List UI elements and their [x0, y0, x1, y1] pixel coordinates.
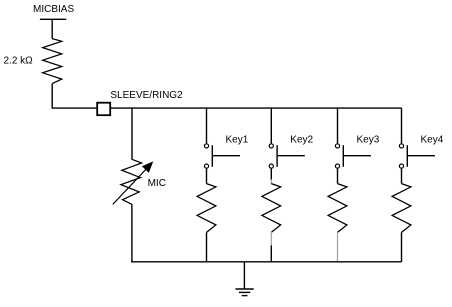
switch Key2 [269, 135, 313, 169]
wire [270, 168, 272, 179]
wire [52, 84, 97, 109]
resistor under Key4 [392, 184, 411, 233]
wire [206, 232, 208, 261]
wire MIC branch [131, 108, 133, 159]
svg-text:MIC: MIC [148, 178, 166, 189]
resistor under Key2 [262, 184, 281, 233]
wire [337, 232, 339, 261]
wire [401, 232, 403, 261]
svg-text:2.2 kΩ: 2.2 kΩ [4, 55, 34, 66]
resistor 2.2 kOhm [4, 39, 62, 84]
svg-text:Key4: Key4 [421, 135, 444, 146]
wire Key3 drop [337, 108, 339, 144]
wire [401, 168, 403, 183]
resistor under Key1 [197, 184, 216, 233]
wire [206, 168, 208, 183]
svg-text:MICBIAS: MICBIAS [33, 4, 74, 15]
svg-text:SLEEVE/RING2: SLEEVE/RING2 [110, 90, 183, 101]
switch Key1 [204, 135, 248, 169]
svg-text:Key2: Key2 [290, 135, 313, 146]
wire Key1 drop [206, 108, 208, 144]
wire [131, 204, 133, 261]
wire top rail [110, 107, 401, 109]
connector SLEEVE/RING2 [97, 90, 183, 115]
svg-text:Key3: Key3 [357, 135, 380, 146]
node MICBIAS [33, 4, 74, 38]
wire bottom rail [131, 261, 402, 263]
wire [337, 168, 339, 183]
switch Key3 [335, 135, 379, 169]
switch Key4 [399, 135, 443, 169]
microphone MIC [113, 159, 166, 204]
wire [270, 232, 272, 245]
svg-text:Key1: Key1 [226, 135, 249, 146]
wire Key2 drop [270, 108, 272, 144]
wire Key4 drop [401, 108, 403, 144]
ground [236, 262, 254, 296]
resistor under Key3 [328, 184, 347, 233]
